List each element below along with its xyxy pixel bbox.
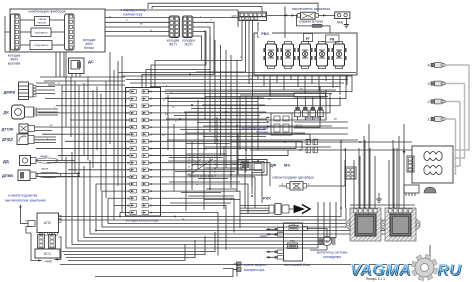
svg-text:колодка контроллера: колодка контроллера [126,219,159,223]
svg-text:охлаждения: охлаждения [323,255,341,259]
svg-text:форсунки: форсунки [306,116,321,120]
svg-text:белая: белая [84,46,94,50]
svg-text:спидометр: спидометр [34,43,49,47]
svg-text:ДК: ДК [4,110,10,115]
svg-text:выключатель зажигания: выключатель зажигания [292,7,330,11]
svg-text:экран: экран [41,167,49,171]
svg-text:бг: бг [150,30,152,33]
svg-text:ИСС: ИСС [44,252,52,256]
svg-text:РХХ: РХХ [263,196,271,201]
svg-text:кж: кж [140,23,143,26]
svg-text:ДФ: ДФ [270,163,277,168]
svg-text:АПС: АПС [44,221,52,225]
svg-text:плавкая вставка: плавкая вставка [299,19,324,23]
svg-text:1: 1 [427,117,429,121]
svg-text:+АКБ: +АКБ [44,260,52,264]
svg-text:неиспр.: неиспр. [37,22,46,25]
svg-text:ЖСП: ЖСП [185,43,194,47]
svg-text:РВ: РВ [330,38,335,42]
svg-text:жг: жг [196,183,199,186]
svg-text:клапан продувки адсорбера: клапан продувки адсорбера [272,175,314,179]
svg-text:ДПКВ: ДПКВ [2,173,13,178]
svg-text:4: 4 [427,63,429,67]
svg-text:3: 3 [427,82,429,86]
svg-text:компьютеру: компьютеру [123,13,143,17]
svg-text:RU: RU [437,262,461,279]
svg-text:Январь 5.1.1: Январь 5.1.1 [366,277,385,281]
svg-text:красная: красная [8,62,21,66]
svg-text:ДПДЗ: ДПДЗ [2,137,14,142]
svg-text:сг: сг [214,168,216,171]
svg-text:РБЗ: РБЗ [261,32,269,36]
svg-text:ДД: ДД [3,159,9,164]
svg-text:компрессора: компрессора [244,268,265,272]
svg-text:КЛ: КЛ [232,14,237,19]
svg-text:ДМРВ: ДМРВ [4,90,16,95]
svg-text:к реле муфты: к реле муфты [244,263,266,267]
svg-text:2: 2 [427,100,429,104]
svg-text:комбинация приборов: комбинация приборов [28,10,65,14]
svg-text:ЖГП: ЖГП [169,43,177,47]
svg-text:тахометр: тахометр [35,30,48,34]
svg-text:ДС: ДС [88,59,94,64]
svg-text:ДТОЖ: ДТОЖ [2,127,14,132]
svg-text:г: г [113,26,114,29]
svg-text:МЗ: МЗ [284,163,290,168]
svg-text:АКБ: АКБ [337,20,344,24]
svg-text:к лампе подсветки: к лампе подсветки [8,194,37,198]
svg-text:выключателем зажигания: выключателем зажигания [5,199,46,203]
svg-text:РГ: РГ [306,37,310,41]
